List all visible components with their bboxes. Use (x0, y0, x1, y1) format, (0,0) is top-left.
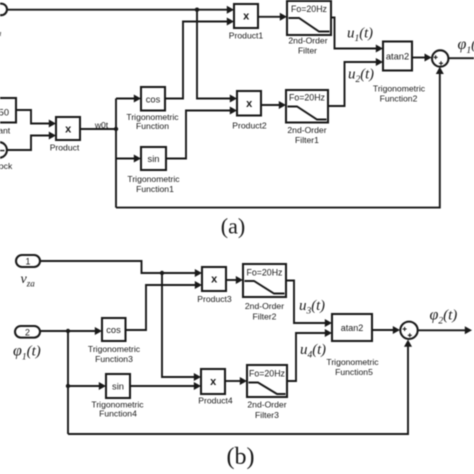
2nd-order filter1 block (Fo=20Hz) (286, 90, 328, 123)
svg-text:φ1(t): φ1(t) (458, 36, 474, 56)
wire: cos output up to Product3 bottom input (126, 285, 196, 330)
wire: cos output up to Product1 bottom input (165, 22, 228, 99)
wire: phi1 feedback rail to Sum(b) bottom (68, 346, 408, 434)
wire: Sum(b) output phi2 with arrow (418, 329, 465, 331)
node: junction on v_sa wire (195, 8, 199, 12)
svg-text:(b): (b) (227, 444, 255, 470)
svg-text:Function5: Function5 (335, 367, 373, 377)
svg-text:cos: cos (106, 325, 121, 335)
wire: Sum(a) output phi1 (448, 57, 474, 59)
node: junction phi1 top (66, 329, 70, 333)
svg-text:x: x (211, 274, 218, 286)
wire: Product4 to Filter3 (225, 380, 241, 382)
svg-text:Function4: Function4 (99, 409, 137, 419)
svg-text:Constant: Constant (0, 126, 11, 136)
input port 1 (16, 255, 40, 267)
wire: sin output up to Product2 bottom input (166, 111, 231, 159)
wire: Constant to Product top input (16, 110, 50, 124)
svg-text:2: 2 (25, 327, 30, 337)
wire: trunk to sin input (116, 158, 135, 160)
svg-text:Filter: Filter (298, 45, 317, 55)
2nd-order filter block (Fo=20Hz) (287, 1, 331, 35)
svg-text:x: x (210, 376, 217, 388)
svg-text:w0t: w0t (94, 120, 109, 130)
svg-text:sin: sin (112, 382, 124, 392)
sum block Sum(b) (400, 322, 417, 339)
node: junction v_za (160, 271, 164, 275)
svg-text:Fo=20Hz: Fo=20Hz (249, 369, 285, 379)
svg-text:2nd-Order: 2nd-Order (247, 400, 286, 410)
wire: Clock to Product bottom input (7, 136, 50, 151)
trigonometric function4 block sin (106, 374, 130, 398)
svg-text:Function1: Function1 (136, 184, 174, 194)
wire: In1 to Product1 top input (7, 9, 228, 11)
wire: Product1 to 2nd-Order Filter (258, 16, 281, 18)
wire: junction to sin input (68, 385, 100, 387)
wire: Filter2 output to atan2 first input, u3 (286, 281, 326, 324)
svg-text:Function: Function (136, 121, 169, 131)
wire: atan2 to Sum(b) (372, 329, 394, 331)
2nd-order filter3 block (Fo=20Hz) (247, 365, 287, 397)
wire: port1 to Product3 top input (40, 261, 196, 273)
wire: junction down to Product4 top input (162, 273, 195, 377)
wire w0t: Product output to trunk junction (80, 128, 116, 130)
wire: w0t feedback rail to Sum(a) bottom (116, 73, 440, 208)
wire: Filter output to atan2 first input, u1 (331, 18, 377, 49)
svg-text:φ1(t): φ1(t) (13, 343, 41, 363)
svg-text:cos: cos (146, 94, 161, 104)
trigonometric function2 block atan2 (383, 42, 412, 71)
wire: trunk vertical w0t (115, 99, 117, 208)
svg-text:2nd-Order: 2nd-Order (245, 301, 284, 311)
svg-text:Trigonometric: Trigonometric (326, 357, 379, 367)
wire: port2 to cos input (40, 330, 96, 332)
wire: atan2 to Sum(a) (412, 57, 425, 59)
svg-text:Filter3: Filter3 (255, 410, 279, 420)
input port In1 (v_sa), clipped at left edge (0, 4, 7, 16)
trigonometric function5 block atan2 (332, 314, 372, 341)
wire: Filter1 output to atan2 second input, u2 (328, 62, 377, 106)
svg-text:(a): (a) (221, 214, 245, 239)
trigonometric function3 block cos (102, 318, 126, 341)
svg-text:u2(t): u2(t) (348, 67, 374, 86)
svg-text:Trigonometric: Trigonometric (127, 174, 180, 184)
wire: junction down to Product2 top input (197, 10, 231, 99)
svg-text:u4(t): u4(t) (300, 342, 326, 361)
svg-text:atan2: atan2 (386, 51, 409, 61)
wire: phi1 trunk down to feedback rail (67, 331, 69, 434)
svg-text:2nd-Order: 2nd-Order (288, 36, 327, 46)
wire: sin output to Product4 bottom input (130, 385, 195, 387)
trigonometric function block cos (141, 87, 165, 111)
wire: Product3 to Filter2 (226, 279, 237, 281)
svg-text:sin: sin (148, 154, 160, 164)
svg-text:atan2: atan2 (341, 323, 364, 333)
clock block, clipped at left edge (0, 142, 7, 158)
input port 2 (15, 326, 40, 338)
wire: Product2 to 2nd-Order Filter1 (261, 104, 280, 106)
svg-text:Clock: Clock (0, 161, 13, 171)
svg-text:Product3: Product3 (197, 294, 232, 304)
svg-text:vsa: vsa (0, 21, 1, 38)
svg-text:φ2(t): φ2(t) (430, 307, 458, 327)
wire: Filter3 output to atan2 second input, u4 (287, 333, 326, 381)
node: w0t junction (114, 127, 118, 131)
svg-text:u1(t): u1(t) (347, 26, 373, 45)
node: junction phi1 at sin level (66, 384, 70, 388)
svg-text:Product2: Product2 (232, 121, 267, 131)
wire: trunk to cos input (116, 98, 135, 100)
product block "Product" (56, 117, 80, 140)
product block Product3 (202, 267, 226, 291)
2nd-order filter2 block (Fo=20Hz) (243, 264, 286, 297)
svg-text:2nd-Order: 2nd-Order (287, 125, 326, 135)
product block Product1 (234, 4, 258, 28)
svg-text:Filter2: Filter2 (253, 312, 277, 322)
svg-text:x: x (243, 11, 250, 23)
svg-text:Product4: Product4 (198, 396, 233, 406)
svg-text:1: 1 (26, 257, 31, 267)
svg-text:Fo=20Hz: Fo=20Hz (247, 268, 283, 278)
svg-text:Fo=20Hz: Fo=20Hz (291, 4, 327, 14)
svg-text:Trigonometric: Trigonometric (373, 84, 426, 94)
svg-text:Function3: Function3 (95, 354, 133, 364)
svg-text:Fo=20Hz: Fo=20Hz (289, 93, 325, 103)
svg-text:Filter1: Filter1 (295, 135, 319, 145)
svg-text:x: x (65, 124, 72, 136)
trigonometric function block sin (Trigonometric Function1) (141, 147, 166, 170)
svg-text:2*pi*50: 2*pi*50 (0, 108, 9, 118)
svg-text:u3(t): u3(t) (299, 298, 325, 317)
svg-text:Trigonometric: Trigonometric (88, 344, 141, 354)
product block Product4 (201, 369, 225, 394)
svg-text:Product1: Product1 (229, 31, 264, 41)
product block Product2 (237, 91, 261, 116)
sum block Sum(a) (432, 50, 448, 66)
svg-text:x: x (246, 98, 253, 110)
svg-text:Function2: Function2 (380, 93, 418, 103)
constant block (2*pi*50), clipped at left edge (0, 98, 16, 123)
svg-text:vza: vza (21, 272, 36, 289)
svg-text:Product: Product (50, 143, 80, 153)
